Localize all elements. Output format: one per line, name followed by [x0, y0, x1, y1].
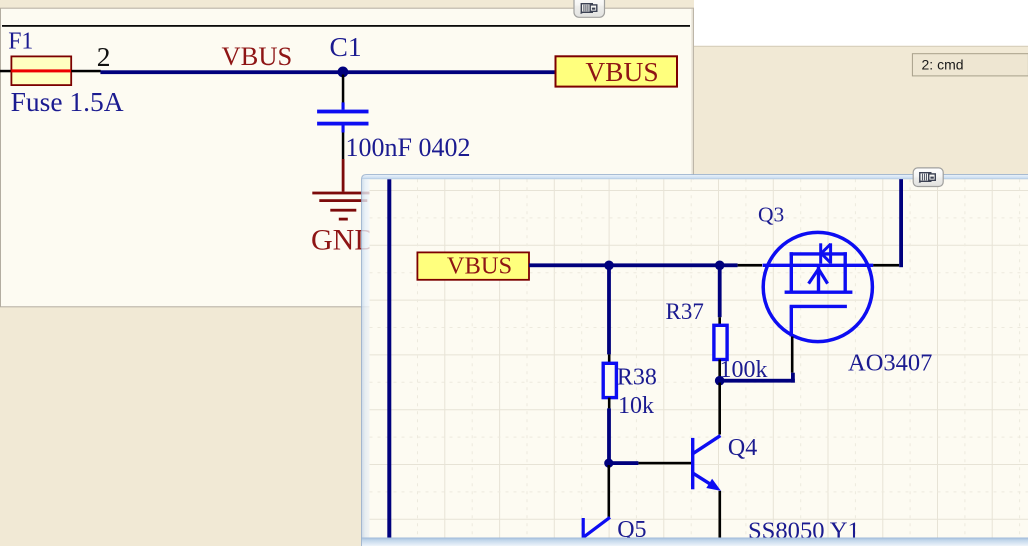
svg-text:R37: R37 [666, 299, 704, 324]
svg-text:2: 2 [97, 41, 111, 72]
node junction at R37 column [715, 261, 725, 271]
capacitor C1 designator [330, 31, 362, 62]
wire R38 to base junction (navy) [607, 408, 611, 463]
wire (black pin from junction to capacitor) [342, 75, 345, 103]
wire (black collector pin of Q5) [608, 465, 611, 517]
svg-text:100nF 0402: 100nF 0402 [346, 133, 471, 162]
svg-text:R38: R38 [617, 364, 657, 390]
svg-text:100k: 100k [720, 357, 768, 383]
wire (black emitter pin of Q4) [719, 491, 722, 546]
wire VBUS (horizontal net wire panel 1) [100, 70, 555, 74]
wire (black pin into R37 top) [718, 317, 721, 325]
fuse F1 [11, 56, 71, 85]
label SS8050 Y1 [748, 517, 860, 544]
wire (black pin stub into Q3 source) [738, 264, 762, 267]
wire (black base pin of Q4) [638, 462, 692, 465]
svg-text:VBUS: VBUS [447, 253, 512, 280]
value label Fuse 1.5A [11, 86, 124, 117]
svg-text:Fuse 1.5A: Fuse 1.5A [11, 86, 124, 117]
wire (black pin from R37 bottom) [718, 360, 721, 377]
transistor Q5 (partially visible) [583, 517, 610, 538]
svg-text:C1: C1 [330, 31, 362, 62]
svg-text:F1: F1 [8, 29, 33, 55]
resistor R37 [714, 325, 727, 359]
wire base (navy part) [609, 461, 639, 465]
value label 100k [720, 357, 768, 383]
svg-text:VBUS: VBUS [585, 56, 658, 87]
node junction at R38 column [604, 261, 614, 271]
wire (black gate pin of Q3) [791, 337, 794, 373]
net label VBUS [222, 41, 293, 71]
wire sheet border (panel 1 schematic sheet edge) [2, 25, 690, 27]
ground label GND [311, 223, 376, 256]
wire (black pin from capacitor to ground) [342, 133, 345, 160]
label Q4 [728, 435, 757, 461]
wire to top (navy, Q3 drain up) [899, 179, 903, 267]
wire (black pin from R38 bottom) [608, 398, 611, 409]
label R38 [617, 364, 657, 390]
wire (black pin stub left of fuse) [0, 70, 11, 73]
wire from junction down to R37 (navy) [718, 265, 722, 317]
resistor R38 [603, 363, 616, 397]
wire (black pin stub from Q3 drain) [873, 264, 899, 267]
wire VBUS horizontal (panel 2) [529, 263, 738, 267]
transistor Q4 (NPN) [693, 436, 721, 491]
node junction at C1 [338, 67, 349, 78]
port VBUS (panel 2) [417, 252, 529, 279]
value label 10k [618, 393, 654, 419]
label AO3407 [848, 349, 932, 376]
capacitor C1 [317, 102, 368, 132]
port VBUS (panel 1) [556, 56, 678, 87]
node junction at Q4 base [604, 459, 613, 468]
wire gate corner (navy) [720, 373, 795, 383]
value label 100nF 0402 [346, 133, 471, 162]
svg-text:Q3: Q3 [758, 203, 784, 227]
wire from junction down to R38 (navy) [607, 265, 611, 354]
svg-text:AO3407: AO3407 [848, 349, 932, 376]
wire (black pin into R38 top) [608, 354, 611, 363]
label Q5 [617, 517, 646, 543]
wire (black collector pin of Q4) [718, 383, 721, 435]
transistor Q3 (P-MOSFET) [763, 232, 874, 341]
svg-text:Q4: Q4 [728, 435, 757, 461]
label R37 [666, 299, 704, 324]
pin 2 of fuse F1 [71, 41, 110, 72]
svg-text:10k: 10k [618, 393, 654, 419]
label Q3 [758, 203, 784, 227]
svg-text:VBUS: VBUS [222, 41, 293, 71]
node junction at gate corner [715, 376, 725, 386]
svg-text:2: cmd: 2: cmd [922, 56, 964, 72]
ground GND power port [312, 159, 374, 221]
wire sheet border (panel 2 schematic sheet edge) [387, 179, 391, 546]
fuse F1 designator label [8, 29, 33, 55]
